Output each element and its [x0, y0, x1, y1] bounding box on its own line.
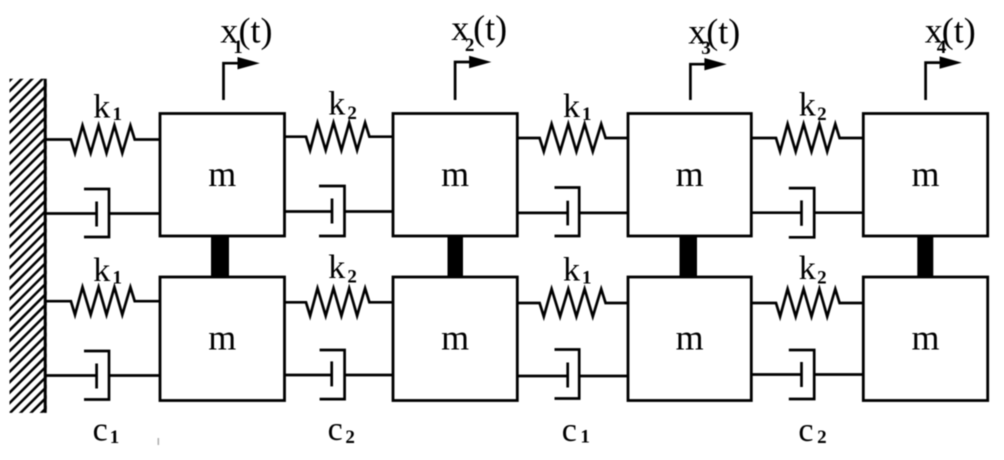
svg-text:k: k	[328, 249, 345, 286]
svg-text:k: k	[563, 88, 580, 125]
damper c1 (top row, position 3)	[517, 188, 628, 237]
rigid connector bar between m3 top and bottom	[680, 235, 698, 278]
svg-text:2: 2	[817, 268, 827, 289]
damper c1 (bottom row, position 3)	[517, 350, 628, 399]
svg-text:2: 2	[817, 104, 827, 125]
faint scan artifact tick below m1 bottom-left	[158, 438, 160, 445]
svg-text:k: k	[799, 250, 816, 287]
svg-text:k: k	[799, 87, 816, 124]
svg-text:m: m	[911, 154, 939, 194]
svg-text:k: k	[563, 252, 580, 289]
spring k2 (bottom row, position 4)	[751, 289, 863, 317]
svg-text:m: m	[441, 154, 469, 194]
label k2 (top row, position 4)	[799, 87, 827, 126]
svg-text:m: m	[911, 318, 939, 358]
svg-text:(t): (t)	[942, 10, 976, 50]
svg-text:1: 1	[582, 104, 592, 125]
svg-text:(t): (t)	[239, 10, 273, 50]
svg-text:m: m	[441, 318, 469, 358]
svg-text:(t): (t)	[473, 8, 507, 48]
label k1 (top row, position 3)	[563, 88, 592, 125]
svg-text:1: 1	[110, 427, 120, 448]
label x3(t)	[688, 11, 740, 59]
label k2 (bottom row, position 2)	[328, 249, 357, 287]
mass block m1 (top row)	[160, 114, 285, 237]
label c1 (damper value, position 3)	[562, 412, 590, 449]
wall (fixed support, hatched)	[8, 42, 49, 458]
damper c2 (bottom row, position 2)	[285, 350, 394, 399]
svg-text:2: 2	[345, 427, 355, 448]
svg-text:k: k	[328, 86, 345, 123]
label c1 (damper value, position 1)	[93, 412, 120, 449]
spring k1 (bottom row, position 3)	[517, 289, 628, 317]
label c2 (damper value, position 4)	[798, 412, 826, 449]
label c2 (damper value, position 2)	[328, 411, 355, 448]
damper c1 (top row, position 1)	[46, 189, 160, 237]
damper c2 (top row, position 2)	[285, 186, 394, 236]
svg-text:k: k	[93, 88, 110, 125]
svg-text:m: m	[208, 154, 236, 194]
displacement arrow x2	[455, 56, 491, 100]
rigid connector bar between m1 top and bottom	[211, 235, 229, 278]
svg-text:2: 2	[347, 103, 357, 124]
displacement arrow x4	[926, 56, 962, 100]
svg-text:m: m	[208, 318, 236, 358]
spring k1 (bottom row, position 1)	[46, 287, 160, 315]
mass block m4 (bottom row)	[863, 277, 987, 401]
spring k2 (top row, position 2)	[285, 123, 394, 151]
svg-text:c: c	[328, 411, 343, 448]
spring k1 (top row, position 3)	[517, 124, 628, 152]
svg-text:m: m	[676, 318, 704, 358]
mass block m2 (bottom row)	[393, 277, 517, 401]
spring k2 (top row, position 4)	[751, 124, 863, 152]
svg-text:c: c	[93, 412, 108, 449]
label k2 (bottom row, position 4)	[799, 250, 827, 289]
svg-text:1: 1	[580, 427, 590, 448]
damper c2 (top row, position 4)	[751, 188, 863, 237]
damper c2 (bottom row, position 4)	[751, 350, 863, 399]
mass block m3 (bottom row)	[628, 277, 751, 401]
damper c1 (bottom row, position 1)	[46, 351, 160, 400]
label k1 (top row, position 1)	[93, 88, 122, 125]
svg-text:k: k	[93, 252, 110, 289]
svg-text:2: 2	[817, 427, 827, 448]
label k2 (top row, position 2)	[328, 86, 357, 124]
label x1(t)	[220, 10, 272, 58]
spring k2 (bottom row, position 2)	[285, 288, 394, 316]
svg-text:c: c	[798, 412, 813, 449]
mass block m1 (bottom row)	[160, 277, 285, 401]
mass block m2 (top row)	[393, 114, 517, 237]
displacement arrow x3	[690, 58, 726, 100]
spring k1 (top row, position 1)	[46, 126, 160, 154]
svg-text:1: 1	[582, 268, 592, 289]
svg-text:1: 1	[113, 268, 123, 289]
label x4(t)	[925, 10, 976, 58]
rigid connector bar between m2 top and bottom	[448, 235, 464, 278]
svg-text:m: m	[676, 154, 704, 194]
displacement arrow x1	[224, 57, 260, 100]
svg-text:c: c	[562, 412, 577, 449]
rigid connector bar between m4 top and bottom	[917, 235, 933, 278]
label k1 (bottom row, position 3)	[563, 252, 592, 289]
svg-text:1: 1	[113, 104, 123, 125]
svg-text:2: 2	[347, 267, 357, 288]
svg-text:(t): (t)	[706, 11, 740, 51]
label x2(t)	[451, 8, 507, 56]
mass block m3 (top row)	[628, 114, 751, 237]
label k1 (bottom row, position 1)	[93, 252, 122, 289]
mass block m4 (top row)	[863, 114, 987, 237]
